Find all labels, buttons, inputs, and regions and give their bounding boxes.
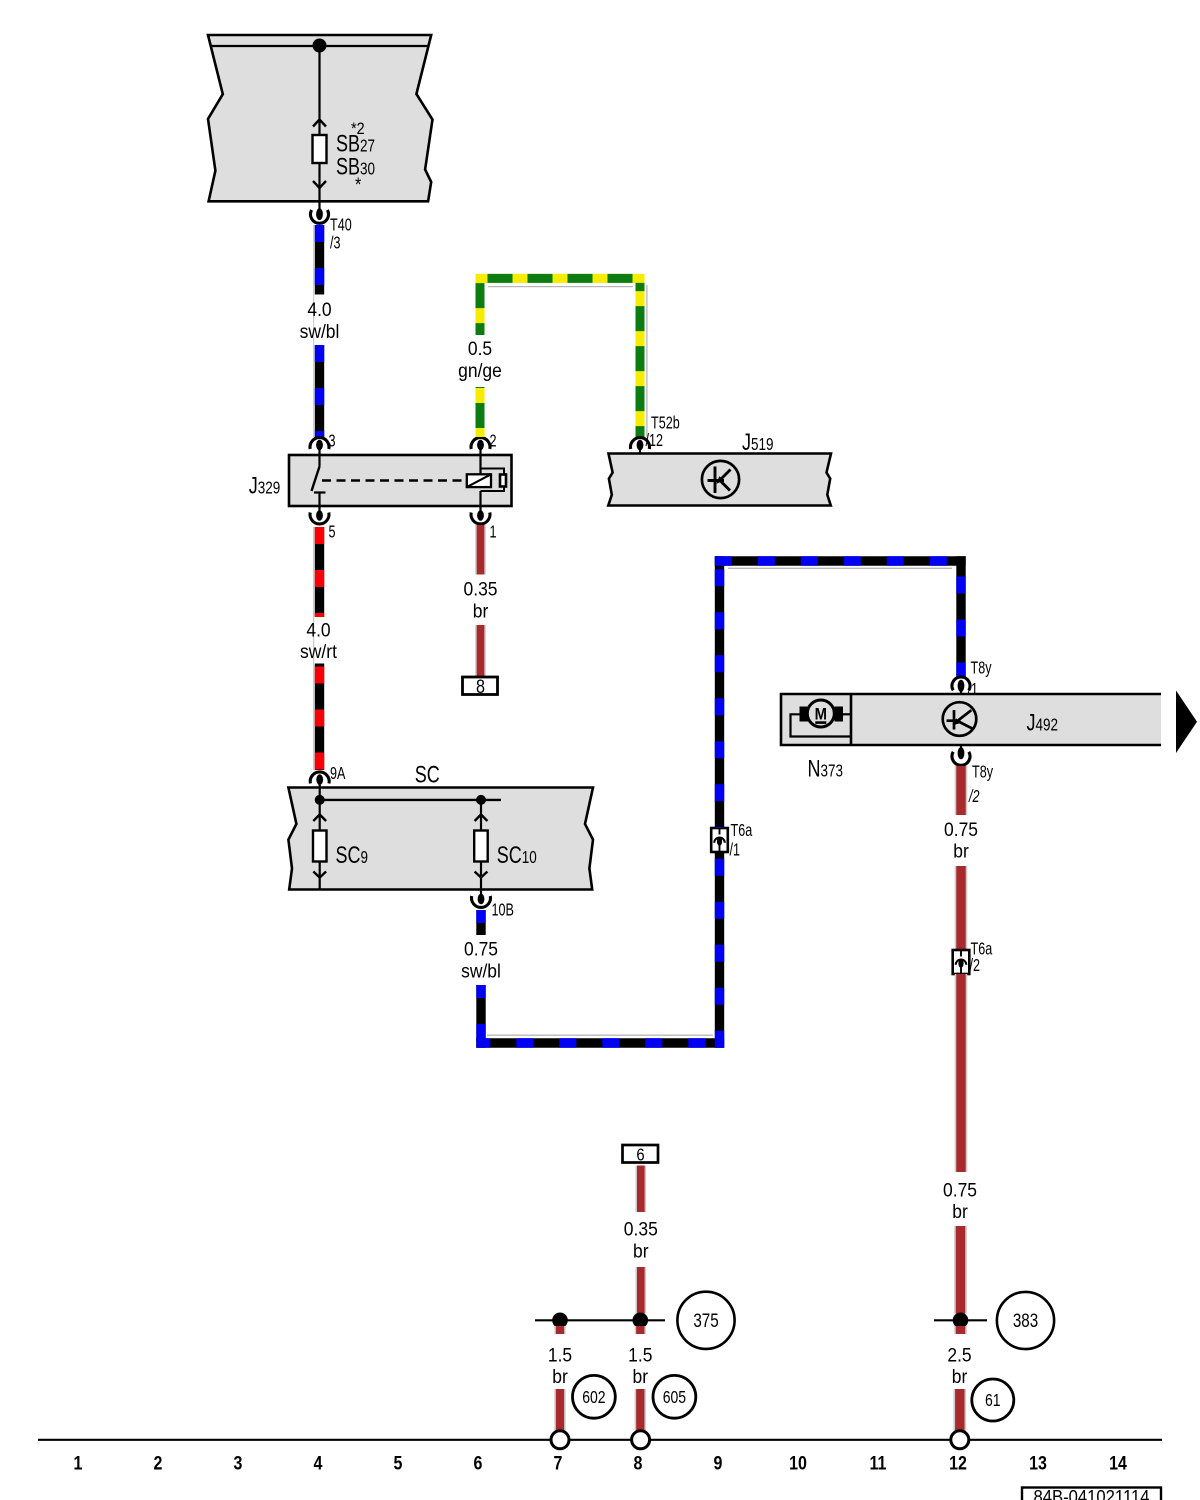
svg-text:*: * (355, 174, 361, 196)
svg-text:T8y: T8y (972, 763, 993, 783)
wire 4.0 sw/bl lower segment (315, 345, 324, 438)
wire 0.5 gn/ge left vertical upper part (476, 274, 485, 335)
svg-text:/1: /1 (968, 680, 979, 700)
wire stub below junction col 7 (554, 1326, 565, 1334)
svg-text:11: 11 (870, 1452, 887, 1474)
svg-text:10B: 10B (492, 901, 514, 921)
fuse SC9 (313, 800, 327, 890)
svg-text:sw/bl: sw/bl (461, 960, 501, 982)
wire 0.75 sw/bl right vertical into T8y/1 (956, 556, 965, 678)
relay J329 (box) (289, 455, 512, 506)
ground symbol col 8 (632, 1431, 650, 1449)
connector T40/3 (318, 201, 320, 209)
connector pin 9A of SC (310, 772, 329, 783)
svg-text:br: br (633, 1240, 649, 1262)
svg-text:0.75: 0.75 (944, 818, 978, 840)
svg-text:605: 605 (663, 1388, 687, 1407)
svg-text:12: 12 (949, 1452, 967, 1474)
wire 0.75 br into junction 383 (954, 1226, 967, 1314)
svg-text:sw/rt: sw/rt (300, 640, 337, 662)
svg-text:J519: J519 (742, 430, 774, 456)
wire 1.5 br to ground col 7 (554, 1389, 565, 1431)
svg-text:br: br (473, 600, 489, 622)
continuation arrow of J492 (1176, 691, 1197, 754)
svg-text:/3: /3 (330, 233, 341, 253)
svg-text:1: 1 (490, 523, 497, 543)
ground symbol col 12 (951, 1431, 969, 1449)
junction node col 8 (633, 1313, 649, 1329)
svg-text:/1: /1 (730, 841, 741, 861)
electronics symbol inside J519 (702, 461, 739, 498)
hairline above sw/bl lower horizontal (487, 1034, 713, 1036)
wire 0.75 sw/bl vertical below label (476, 985, 485, 1048)
inline connector T6a/1 (711, 828, 728, 852)
svg-text:375: 375 (693, 1309, 718, 1331)
svg-text:4.0: 4.0 (306, 619, 330, 641)
svg-text:14: 14 (1109, 1452, 1127, 1474)
svg-text:61: 61 (985, 1392, 1001, 1411)
wire connection circle 383 (997, 1292, 1054, 1349)
electronics symbol inside J492 (943, 702, 977, 736)
wire from bus bar to fuse SB (318, 52, 320, 135)
connector pin 2 of J329 (471, 438, 490, 449)
svg-text:84B-041021114: 84B-041021114 (1034, 1486, 1150, 1500)
svg-text:T6a: T6a (731, 821, 753, 841)
node junction on bus bar (313, 39, 327, 53)
ground designation circle 605 (653, 1375, 696, 1418)
node junction right on bus (476, 795, 486, 805)
svg-text:br: br (952, 1365, 968, 1387)
svg-text:T8y: T8y (971, 659, 992, 679)
bus line inside SC (320, 799, 501, 801)
svg-text:9A: 9A (330, 764, 346, 784)
svg-text:br: br (552, 1365, 568, 1387)
junction link line 375 (535, 1319, 665, 1321)
svg-text:9: 9 (714, 1452, 723, 1474)
ground 6 (earth point box) (623, 1145, 659, 1163)
svg-text:M: M (815, 706, 827, 724)
inline connector T6a/2 (953, 950, 970, 974)
connector T8y/1 on J492 (952, 677, 970, 690)
wire 1.5 br to ground col 8 (635, 1389, 646, 1431)
wire stub below junction 383 (954, 1326, 967, 1334)
wire from fuse to terminal T40 (318, 163, 320, 201)
wire 0.75 sw/bl rising vertical to T6a (715, 852, 724, 1048)
svg-text:0.5: 0.5 (468, 337, 492, 359)
svg-text:8: 8 (634, 1452, 643, 1474)
svg-text:0.75: 0.75 (464, 938, 498, 960)
ground rail line (38, 1439, 1162, 1441)
node junction left on bus (315, 795, 325, 805)
connector T8y/2 on J492 (960, 745, 962, 749)
fuse panel SC (torn box) (288, 788, 593, 890)
ground 8 (earth point box) (463, 677, 498, 695)
svg-text:T40: T40 (330, 216, 352, 236)
connector T52b/12 on J519 (631, 438, 650, 449)
connector pin 1 of J329 (479, 506, 481, 511)
connector pin 3 of J329 (310, 438, 329, 449)
relay coil winding inside J329 (467, 455, 506, 506)
svg-text:SC: SC (415, 762, 440, 788)
wire pin 9A to bus (319, 788, 321, 800)
wire 0.75 sw/bl upper horizontal run (715, 556, 966, 565)
svg-text:3: 3 (234, 1452, 243, 1474)
svg-text:br: br (633, 1365, 649, 1387)
svg-text:2: 2 (490, 432, 497, 452)
wire 4.0 sw/rt lower segment (315, 664, 324, 771)
wire 0.35 br from pin 1 upper segment (475, 525, 486, 575)
svg-text:5: 5 (329, 523, 336, 543)
ground designation circle 61 (972, 1379, 1014, 1421)
svg-text:1.5: 1.5 (628, 1344, 652, 1366)
junction node col 7 (552, 1313, 568, 1329)
ground designation circle 602 (573, 1375, 616, 1418)
control unit J519 (torn box) (608, 454, 831, 506)
svg-text:6: 6 (474, 1452, 483, 1474)
hairline below sw/bl upper horizontal (728, 567, 952, 569)
connector pin 10B of SC (480, 890, 482, 895)
svg-text:0.35: 0.35 (463, 578, 497, 600)
wire 0.5 gn/ge left vertical lower part (476, 387, 485, 437)
svg-text:8: 8 (476, 676, 485, 698)
wire stub below junction col 8 (635, 1326, 646, 1334)
svg-text:2: 2 (154, 1452, 163, 1474)
hairline under gn/ge horizontal (488, 286, 633, 288)
fuse SB27 SB30 (313, 135, 327, 163)
svg-text:0.75: 0.75 (943, 1179, 977, 1201)
bus bar line inside fuse box (211, 45, 429, 47)
hairline casing of wire 4.0 sw/rt (313, 527, 315, 770)
svg-text:7: 7 (554, 1452, 563, 1474)
wire 0.75 br to T6a/2 (955, 866, 968, 950)
svg-text:1: 1 (74, 1452, 83, 1474)
svg-text:4.0: 4.0 (307, 298, 331, 320)
wire 0.35 br lower segment (475, 625, 486, 677)
svg-text:gn/ge: gn/ge (458, 359, 502, 381)
svg-text:6: 6 (636, 1145, 644, 1164)
svg-text:4: 4 (314, 1452, 323, 1474)
fuse box (battery/relay plate, torn box) (208, 35, 433, 201)
svg-text:3: 3 (329, 432, 336, 452)
svg-text:/2: /2 (968, 787, 980, 807)
wire 0.5 gn/ge right vertical (636, 274, 645, 437)
svg-text:13: 13 (1029, 1452, 1047, 1474)
svg-text:2.5: 2.5 (947, 1344, 971, 1366)
wire 0.75 sw/bl stub below pin 10B (476, 910, 485, 935)
ground symbol col 7 (551, 1431, 569, 1449)
junction node 383 (934, 1319, 987, 1321)
switch contact inside J329 (312, 455, 326, 506)
motor N373 symbol (791, 700, 852, 737)
fuse SC10 (474, 800, 488, 890)
wire 0.75 sw/bl vertical above T6a (715, 556, 724, 828)
svg-text:N373: N373 (808, 756, 844, 782)
diagram number plate 84B-041021114 (1022, 1488, 1161, 1500)
svg-text:br: br (953, 840, 969, 862)
connector pin 5 of J329 (318, 506, 320, 511)
wire 0.5 gn/ge horizontal run (476, 274, 645, 283)
hairline right of gn/ge vertical (646, 285, 648, 437)
svg-text:1.5: 1.5 (548, 1344, 572, 1366)
svg-text:br: br (952, 1200, 968, 1222)
current track numbers 1-14 (74, 1452, 1127, 1474)
svg-text:5: 5 (394, 1452, 403, 1474)
svg-text:10: 10 (789, 1452, 807, 1474)
wire connection circle 375 (677, 1292, 734, 1349)
svg-text:sw/bl: sw/bl (300, 320, 340, 342)
mechanical link dashed line (322, 479, 466, 481)
wire 4.0 sw/bl upper segment (315, 225, 324, 295)
wire 0.75 br below T8y/2 (955, 766, 968, 815)
wire 0.35 br into junction 375 (635, 1267, 646, 1314)
wire 2.5 br to ground 12 (953, 1389, 966, 1431)
hairline casing of wire 4.0 sw/bl (313, 225, 315, 437)
svg-text:383: 383 (1013, 1309, 1038, 1331)
wire 0.75 br long vertical (955, 974, 968, 1172)
svg-text:/12: /12 (646, 431, 664, 451)
svg-text:602: 602 (582, 1388, 605, 1407)
divider of motor compartment (850, 694, 853, 745)
svg-text:/2: /2 (970, 956, 981, 976)
wire 4.0 sw/rt upper segment (315, 527, 324, 617)
wire 0.35 br below box 6 (635, 1166, 646, 1213)
wire 0.75 sw/bl lower horizontal run (476, 1038, 724, 1047)
svg-text:J329: J329 (249, 473, 281, 499)
svg-text:0.35: 0.35 (624, 1218, 658, 1240)
control unit J492 (box, continues right) (781, 694, 1161, 745)
